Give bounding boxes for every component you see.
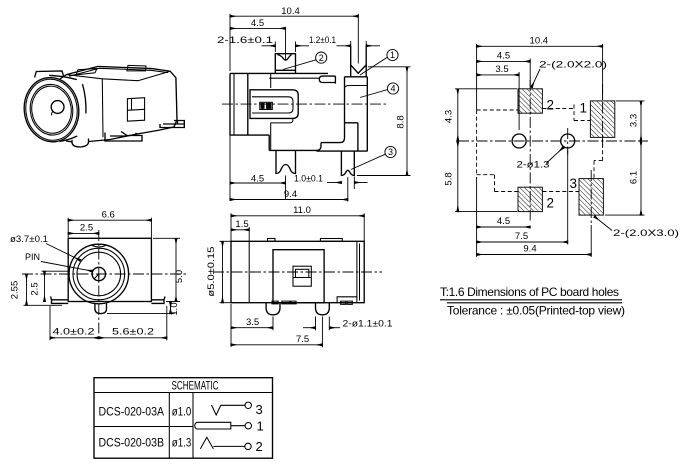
vertical centerline through pad 1 <box>602 84 604 148</box>
schematic pin3 contact <box>212 405 246 415</box>
right leg round pin <box>316 303 330 315</box>
svg-text:2.55: 2.55 <box>10 281 21 300</box>
leg top-left fork <box>275 54 295 74</box>
svg-text:4.5: 4.5 <box>251 18 264 29</box>
top face front edge <box>66 71 170 81</box>
svg-text:DCS-020-03B: DCS-020-03B <box>99 438 165 450</box>
top tab left <box>76 69 97 75</box>
lower band under plug <box>271 118 293 123</box>
svg-text:4.0±0.2: 4.0±0.2 <box>53 327 95 338</box>
svg-text:2.5: 2.5 <box>30 282 41 295</box>
mid housing box <box>273 250 324 303</box>
body inner vertical line lower <box>270 123 272 150</box>
front-right vertical edge <box>101 79 104 137</box>
svg-text:2-ø1.1±0.1: 2-ø1.1±0.1 <box>343 318 393 329</box>
right section line <box>356 241 358 302</box>
barrel face ring <box>29 84 75 136</box>
svg-text:2: 2 <box>547 98 555 113</box>
svg-text:3: 3 <box>570 176 578 191</box>
top step tab rounded left <box>319 76 335 84</box>
top rim inner line <box>69 68 168 76</box>
vertical centerline through circle right / pad 3 <box>567 128 569 155</box>
svg-text:ø3.7±0.1: ø3.7±0.1 <box>10 234 48 245</box>
barrel sleeve top edge <box>49 75 77 79</box>
svg-text:DCS-020-03A: DCS-020-03A <box>99 406 165 418</box>
barrel ring 2 <box>22 76 81 144</box>
svg-text:4.3: 4.3 <box>444 110 455 123</box>
footprint dashed outline <box>477 105 603 192</box>
centerline h <box>22 273 186 275</box>
leg top-right fork <box>351 46 367 77</box>
barrel front edge <box>247 73 249 135</box>
svg-text:3.3: 3.3 <box>629 114 640 127</box>
bottom right step <box>337 297 357 305</box>
barrel circle mid <box>73 248 125 300</box>
body outline side view <box>231 241 364 302</box>
svg-text:6.6: 6.6 <box>102 209 115 220</box>
svg-text:T:1.6 Dimensions of PC board h: T:1.6 Dimensions of PC board holes <box>440 285 619 299</box>
barrel section line <box>248 241 250 302</box>
barrel circle inner 3.7 <box>77 252 121 296</box>
svg-text:1: 1 <box>580 101 588 116</box>
right foot <box>151 297 165 304</box>
svg-text:7.5: 7.5 <box>296 334 309 345</box>
leg bottom-left fork <box>276 150 296 174</box>
svg-text:2: 2 <box>547 196 555 211</box>
svg-text:ø5.0±0.15: ø5.0±0.15 <box>206 247 217 297</box>
svg-text:4: 4 <box>390 84 395 94</box>
right shield step <box>317 123 368 152</box>
body outline rear view <box>68 238 151 301</box>
pin mark dark <box>261 103 272 109</box>
hole pad rect right-bottom 2.0x3.0 (pin 3) <box>579 179 603 216</box>
bottom pin bump <box>95 303 107 313</box>
barrel outer ellipse <box>20 74 83 145</box>
svg-text:1.0±0.1: 1.0±0.1 <box>294 173 323 184</box>
right shield back plate top <box>321 77 367 152</box>
svg-text:3.5: 3.5 <box>495 64 508 75</box>
svg-text:10.4: 10.4 <box>530 36 549 47</box>
barrel circle outer <box>69 244 129 304</box>
right face window <box>127 98 144 122</box>
svg-text:Tolerance : ±0.05(Printed-top: Tolerance : ±0.05(Printed-top view) <box>447 304 625 318</box>
barrel sleeve bottom edge <box>60 136 78 141</box>
svg-text:ø1.0: ø1.0 <box>172 406 192 418</box>
row divider <box>94 426 193 428</box>
svg-text:SCHEMATIC: SCHEMATIC <box>172 381 219 393</box>
pin housing <box>260 102 273 109</box>
centerline v <box>98 230 100 341</box>
svg-text:5.6±0.2: 5.6±0.2 <box>112 327 154 338</box>
centerline front view <box>222 103 388 105</box>
top notch on circle <box>92 246 106 248</box>
leg bottom-right fork <box>341 151 354 175</box>
top tab left <box>268 239 276 242</box>
svg-text:4.5: 4.5 <box>497 51 510 62</box>
column divider 2 <box>192 393 194 459</box>
table frame <box>94 378 273 459</box>
left foot <box>51 297 69 304</box>
svg-text:2-(2.0X3.0): 2-(2.0X3.0) <box>613 228 679 239</box>
svg-text:5.8: 5.8 <box>444 172 455 185</box>
svg-text:ø1.3: ø1.3 <box>172 438 192 450</box>
svg-text:9.4: 9.4 <box>523 244 536 255</box>
svg-text:10.4: 10.4 <box>281 6 300 17</box>
vertical centerline through squares <box>529 80 531 223</box>
hole pad rect right-top 2.0x3.0 (pin 1) <box>590 101 614 137</box>
svg-text:1: 1 <box>390 50 395 60</box>
svg-text:2: 2 <box>319 53 324 63</box>
svg-text:6.1: 6.1 <box>629 171 640 184</box>
bottom round pin <box>72 139 89 148</box>
svg-text:11.0: 11.0 <box>293 205 311 216</box>
svg-text:2: 2 <box>256 439 263 454</box>
callout 3 <box>385 146 396 157</box>
svg-text:9.4: 9.4 <box>284 189 297 200</box>
svg-text:2.5: 2.5 <box>80 223 93 234</box>
svg-text:1.5: 1.5 <box>235 219 248 230</box>
hole circle right 1.3 <box>561 134 575 148</box>
svg-text:PIN: PIN <box>25 252 40 263</box>
body silhouette <box>60 66 177 141</box>
callout 2 <box>316 52 327 63</box>
svg-text:3: 3 <box>256 402 263 417</box>
svg-text:2-1.6±0.1: 2-1.6±0.1 <box>217 35 273 46</box>
barrel sleeve right bulge <box>83 84 86 113</box>
svg-text:2-(2.0X2.0): 2-(2.0X2.0) <box>539 60 607 71</box>
horizontal centerline <box>458 140 648 142</box>
callout 1 <box>387 49 398 60</box>
svg-text:7.5: 7.5 <box>515 231 528 242</box>
jack body front view: outer silhouette <box>230 73 328 150</box>
header divider <box>94 392 273 394</box>
bottom pads under mid box <box>272 301 296 304</box>
top tab right <box>320 239 342 242</box>
right rear leg <box>160 121 184 128</box>
hole pad square bottom-left 2.0x2.0 <box>518 187 542 211</box>
hole circle left 1.3 <box>512 134 526 148</box>
svg-text:2-ø1.3: 2-ø1.3 <box>517 160 550 171</box>
top tab right <box>127 65 146 71</box>
barrel ring 3 <box>27 82 76 138</box>
svg-text:3.5: 3.5 <box>246 317 259 328</box>
schematic pin1 plug <box>198 422 245 429</box>
left leg round pin <box>266 303 280 315</box>
pin circle <box>92 267 105 280</box>
front bent leg <box>105 132 142 142</box>
svg-text:4.5: 4.5 <box>497 216 510 227</box>
hole pad square top-left 2.0x2.0 <box>518 89 542 113</box>
barrel top tab <box>35 71 64 78</box>
center window detail <box>293 266 311 286</box>
center plug inner profile <box>252 97 293 113</box>
centerline h sideB <box>213 271 382 273</box>
center plug outer profile <box>250 90 298 119</box>
column divider 1 <box>168 393 170 459</box>
callout 4 <box>387 83 398 94</box>
pin hole tail <box>52 111 53 115</box>
svg-text:8.8: 8.8 <box>396 115 407 128</box>
right shield column top edge <box>345 86 368 88</box>
svg-text:1: 1 <box>257 419 264 434</box>
body inner top line <box>269 77 319 79</box>
flange inner line <box>233 73 235 135</box>
svg-text:1.2±0.1: 1.2±0.1 <box>309 35 336 46</box>
schematic pin2 contact <box>200 437 245 449</box>
body inner vertical line upper <box>270 73 272 88</box>
svg-text:3: 3 <box>388 147 393 157</box>
pin hole <box>51 101 64 114</box>
pin slot mark <box>94 274 99 281</box>
